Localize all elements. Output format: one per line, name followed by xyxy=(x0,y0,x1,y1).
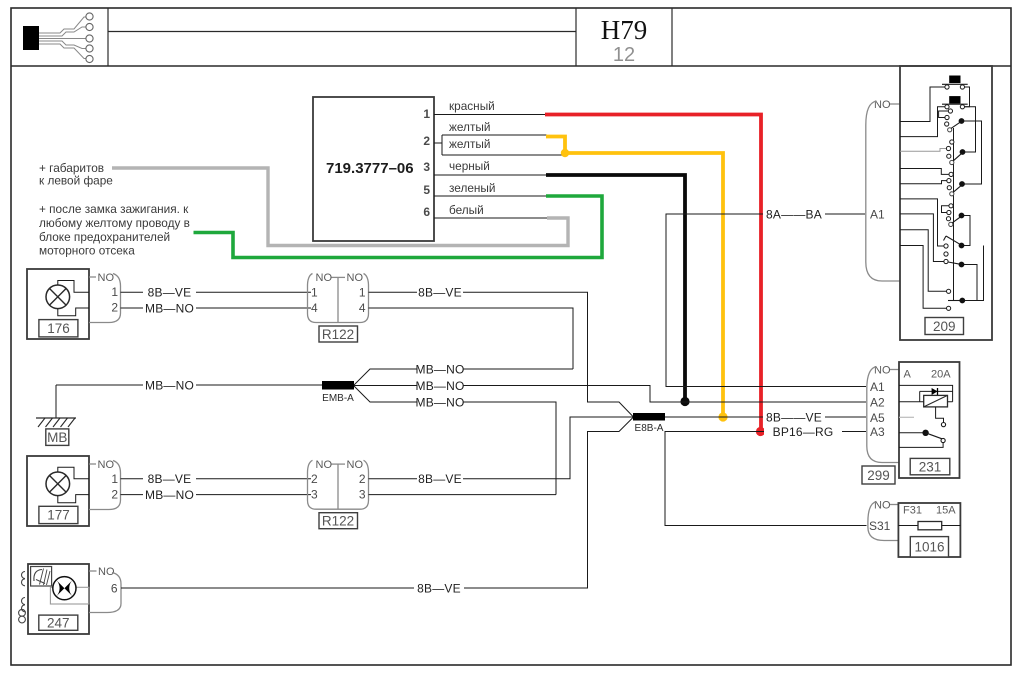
209 contact group F xyxy=(947,289,966,310)
wire MB-NO R122 pin4 to EMB-A xyxy=(369,308,574,369)
svg-text:3: 3 xyxy=(311,488,318,502)
svg-text:S31: S31 xyxy=(869,519,891,533)
svg-text:MB—NO: MB—NO xyxy=(145,301,194,315)
label MB-NO xyxy=(143,301,196,315)
svg-text:231: 231 xyxy=(919,460,942,475)
ground MB xyxy=(36,385,76,445)
247 side connector marks xyxy=(19,572,26,623)
pin 6 stub wire xyxy=(434,217,548,219)
svg-text:A3: A3 xyxy=(870,425,885,439)
svg-text:12: 12 xyxy=(613,44,635,66)
209 faded wire xyxy=(900,149,946,152)
green wire xyxy=(194,196,603,258)
wire MB-NO 177 to R122 xyxy=(121,494,312,496)
svg-text:2: 2 xyxy=(311,472,318,486)
svg-text:2: 2 xyxy=(111,301,118,315)
svg-text:2: 2 xyxy=(111,488,118,502)
wire 8B-VE 176 to R122 xyxy=(121,291,312,293)
svg-text:A: A xyxy=(904,369,912,381)
gray wire to pin 6 xyxy=(112,168,568,246)
svg-text:176: 176 xyxy=(47,321,70,336)
svg-text:209: 209 xyxy=(933,319,956,334)
svg-text:E8B-A: E8B-A xyxy=(635,423,664,434)
black wire xyxy=(546,175,685,400)
svg-text:299: 299 xyxy=(867,468,890,483)
231 A1 feed line xyxy=(899,385,953,401)
wire MB-NO EMB-A bottom branch xyxy=(354,386,556,495)
svg-text:желтый: желтый xyxy=(449,137,490,151)
wire MB-NO R122 bottom pin3 xyxy=(369,494,557,496)
pin 1 stub wire xyxy=(434,114,546,116)
svg-text:NO: NO xyxy=(347,272,364,284)
svg-text:блоке предохранителей: блоке предохранителей xyxy=(39,230,170,244)
label MB-NO xyxy=(143,488,196,502)
svg-text:NO: NO xyxy=(874,99,891,111)
label BP16-RG xyxy=(764,425,842,439)
svg-text:8B—VE: 8B—VE xyxy=(148,472,192,486)
svg-text:R122: R122 xyxy=(322,514,354,529)
label 8B-VE xyxy=(417,472,463,486)
svg-text:20A: 20A xyxy=(931,369,951,381)
red junction dot xyxy=(756,427,765,436)
svg-text:1016: 1016 xyxy=(914,540,944,555)
svg-text:F31: F31 xyxy=(903,505,922,517)
connector bracket NO of 176 xyxy=(89,272,121,323)
svg-text:3: 3 xyxy=(423,160,430,174)
pin 5 stub wire xyxy=(434,195,547,197)
black junction dot xyxy=(680,397,689,406)
svg-text:любому желтому проводу в: любому желтому проводу в xyxy=(39,216,190,230)
pin 3 stub wire xyxy=(434,174,547,176)
splice E8B-A xyxy=(633,413,665,434)
relay coil K1 xyxy=(899,395,953,407)
svg-text:177: 177 xyxy=(47,508,70,523)
wire MB-NO ground to EMB-A xyxy=(56,384,322,386)
relay contact switch xyxy=(899,423,946,448)
connector R122 bottom xyxy=(307,459,368,529)
svg-text:EMB-A: EMB-A xyxy=(322,393,354,404)
pin 2 fork bracket xyxy=(434,135,566,155)
svg-text:+ после замка зажигания. к: + после замка зажигания. к xyxy=(39,202,189,216)
svg-text:2: 2 xyxy=(359,472,366,486)
relay 231 xyxy=(899,362,960,478)
svg-text:NO: NO xyxy=(98,272,115,284)
svg-text:MB—NO: MB—NO xyxy=(416,379,465,393)
label MB-NO middle xyxy=(416,379,465,393)
instrument cluster 247 xyxy=(28,564,89,634)
label MB-NO bottom xyxy=(416,395,465,409)
pushbutton switch top xyxy=(942,76,968,90)
svg-text:желтый: желтый xyxy=(449,120,490,134)
svg-text:NO: NO xyxy=(316,459,333,471)
label 8A-BA xyxy=(763,207,825,221)
wire MB-NO EMB-A middle branch to 299 A2 xyxy=(354,386,866,403)
209 contact group A xyxy=(945,109,965,132)
connector R122 top xyxy=(307,272,368,342)
svg-text:8B—VE: 8B—VE xyxy=(148,286,192,300)
connector bracket NO of 247 xyxy=(89,566,121,613)
svg-text:1: 1 xyxy=(111,472,118,486)
svg-text:719.3777–06: 719.3777–06 xyxy=(326,160,414,177)
svg-text:NO: NO xyxy=(347,459,364,471)
209 internal wires left nest xyxy=(900,87,949,308)
lamp 176 xyxy=(27,269,89,339)
svg-text:8B—VE: 8B—VE xyxy=(418,472,462,486)
svg-text:MB—NO: MB—NO xyxy=(416,395,465,409)
svg-text:к левой фаре: к левой фаре xyxy=(39,174,113,188)
231 coil to contact link xyxy=(936,407,944,423)
svg-text:красный: красный xyxy=(449,99,495,113)
wire 8B-VE R122 bottom to E8B-A xyxy=(369,417,634,479)
diode D1 xyxy=(920,388,953,402)
209 contact group C xyxy=(947,172,965,196)
209 contact group E xyxy=(944,236,965,267)
svg-text:A1: A1 xyxy=(870,208,885,222)
svg-text:8B——VE: 8B——VE xyxy=(766,410,822,424)
wire MB-NO 176 to R122 xyxy=(121,307,312,309)
svg-text:NO: NO xyxy=(874,500,891,512)
svg-text:NO: NO xyxy=(316,272,333,284)
wire MB-NO EMB-A top branch xyxy=(354,369,573,385)
header bottom line xyxy=(11,65,1011,67)
connector bracket NO / A1 of 209 xyxy=(866,99,900,281)
wire 8A-BA 209 to 299 A1 xyxy=(666,214,866,387)
connector bracket 299 xyxy=(862,365,899,485)
wire 8B-VE R122 to E8B-A xyxy=(369,292,634,416)
label 8B-VE xyxy=(414,581,464,595)
svg-text:MB—NO: MB—NO xyxy=(145,488,194,502)
red wire xyxy=(545,115,761,432)
splice EMB-A xyxy=(322,381,354,404)
logo connector icon xyxy=(23,13,93,63)
wire color name labels xyxy=(449,99,495,217)
svg-text:NO: NO xyxy=(98,459,115,471)
svg-text:8A——BA: 8A——BA xyxy=(766,207,822,221)
svg-text:MB—NO: MB—NO xyxy=(416,362,465,376)
svg-text:1: 1 xyxy=(311,286,318,300)
svg-text:1: 1 xyxy=(359,286,366,300)
svg-text:A5: A5 xyxy=(870,411,885,425)
svg-text:A2: A2 xyxy=(870,395,885,409)
209 internal wires right side xyxy=(954,87,984,301)
svg-text:2: 2 xyxy=(423,134,430,148)
header mid line xyxy=(108,31,576,33)
H79 title box xyxy=(576,8,672,66)
connector block 719.3777-06 xyxy=(313,97,434,241)
wire BP16-RG fuse to 299 A3 xyxy=(665,432,867,526)
svg-text:белый: белый xyxy=(449,203,484,217)
209 contact group D xyxy=(946,204,964,227)
svg-text:зеленый: зеленый xyxy=(449,181,495,195)
svg-text:H79: H79 xyxy=(601,15,648,45)
svg-text:8B—VE: 8B—VE xyxy=(417,581,461,595)
231 label xyxy=(910,458,950,474)
svg-text:6: 6 xyxy=(111,582,118,596)
label 8B-VE xyxy=(417,286,463,300)
svg-text:1: 1 xyxy=(111,285,118,299)
switch assembly 209 xyxy=(900,66,992,340)
label MB-NO top xyxy=(416,362,465,376)
yellow splice dot xyxy=(561,149,569,157)
label 8B-VE xyxy=(143,472,196,486)
svg-text:R122: R122 xyxy=(322,327,354,342)
svg-text:NO: NO xyxy=(874,365,891,377)
svg-text:247: 247 xyxy=(47,616,70,631)
svg-text:моторного отсека: моторного отсека xyxy=(39,244,135,258)
label 8B-VE xyxy=(143,286,196,300)
wire 8B-VE 177 to R122 xyxy=(121,478,312,480)
yellow junction dot xyxy=(718,412,727,421)
label 8B-VE xyxy=(763,410,825,424)
connector bracket S31 xyxy=(868,500,898,541)
svg-text:MB—NO: MB—NO xyxy=(145,378,194,392)
fuse box 1016 xyxy=(898,503,960,557)
svg-text:1: 1 xyxy=(423,107,430,121)
svg-text:A1: A1 xyxy=(870,380,885,394)
logo box divider xyxy=(107,8,109,66)
svg-text:5: 5 xyxy=(423,183,430,197)
note text left feeds xyxy=(39,161,190,258)
wire 8B-VE E8B-A to 299 A5 xyxy=(665,416,866,418)
svg-text:BP16—RG: BP16—RG xyxy=(773,425,834,439)
209 contact group B xyxy=(946,140,965,165)
svg-text:черный: черный xyxy=(449,159,490,173)
connector bracket NO of 177 xyxy=(89,459,121,510)
svg-text:6: 6 xyxy=(423,205,430,219)
svg-text:MB: MB xyxy=(47,430,67,445)
svg-text:3: 3 xyxy=(359,488,366,502)
pushbutton switch second xyxy=(942,96,968,109)
svg-text:15A: 15A xyxy=(936,505,956,517)
lamp 177 xyxy=(27,456,89,526)
svg-text:8B—VE: 8B—VE xyxy=(418,286,462,300)
yellow wire xyxy=(546,137,723,417)
231 A5 stub xyxy=(899,416,914,418)
label MB-NO xyxy=(143,378,196,392)
svg-text:4: 4 xyxy=(311,301,318,315)
wire 8B-VE 247 to E8B-A xyxy=(121,418,633,589)
svg-text:4: 4 xyxy=(359,301,366,315)
